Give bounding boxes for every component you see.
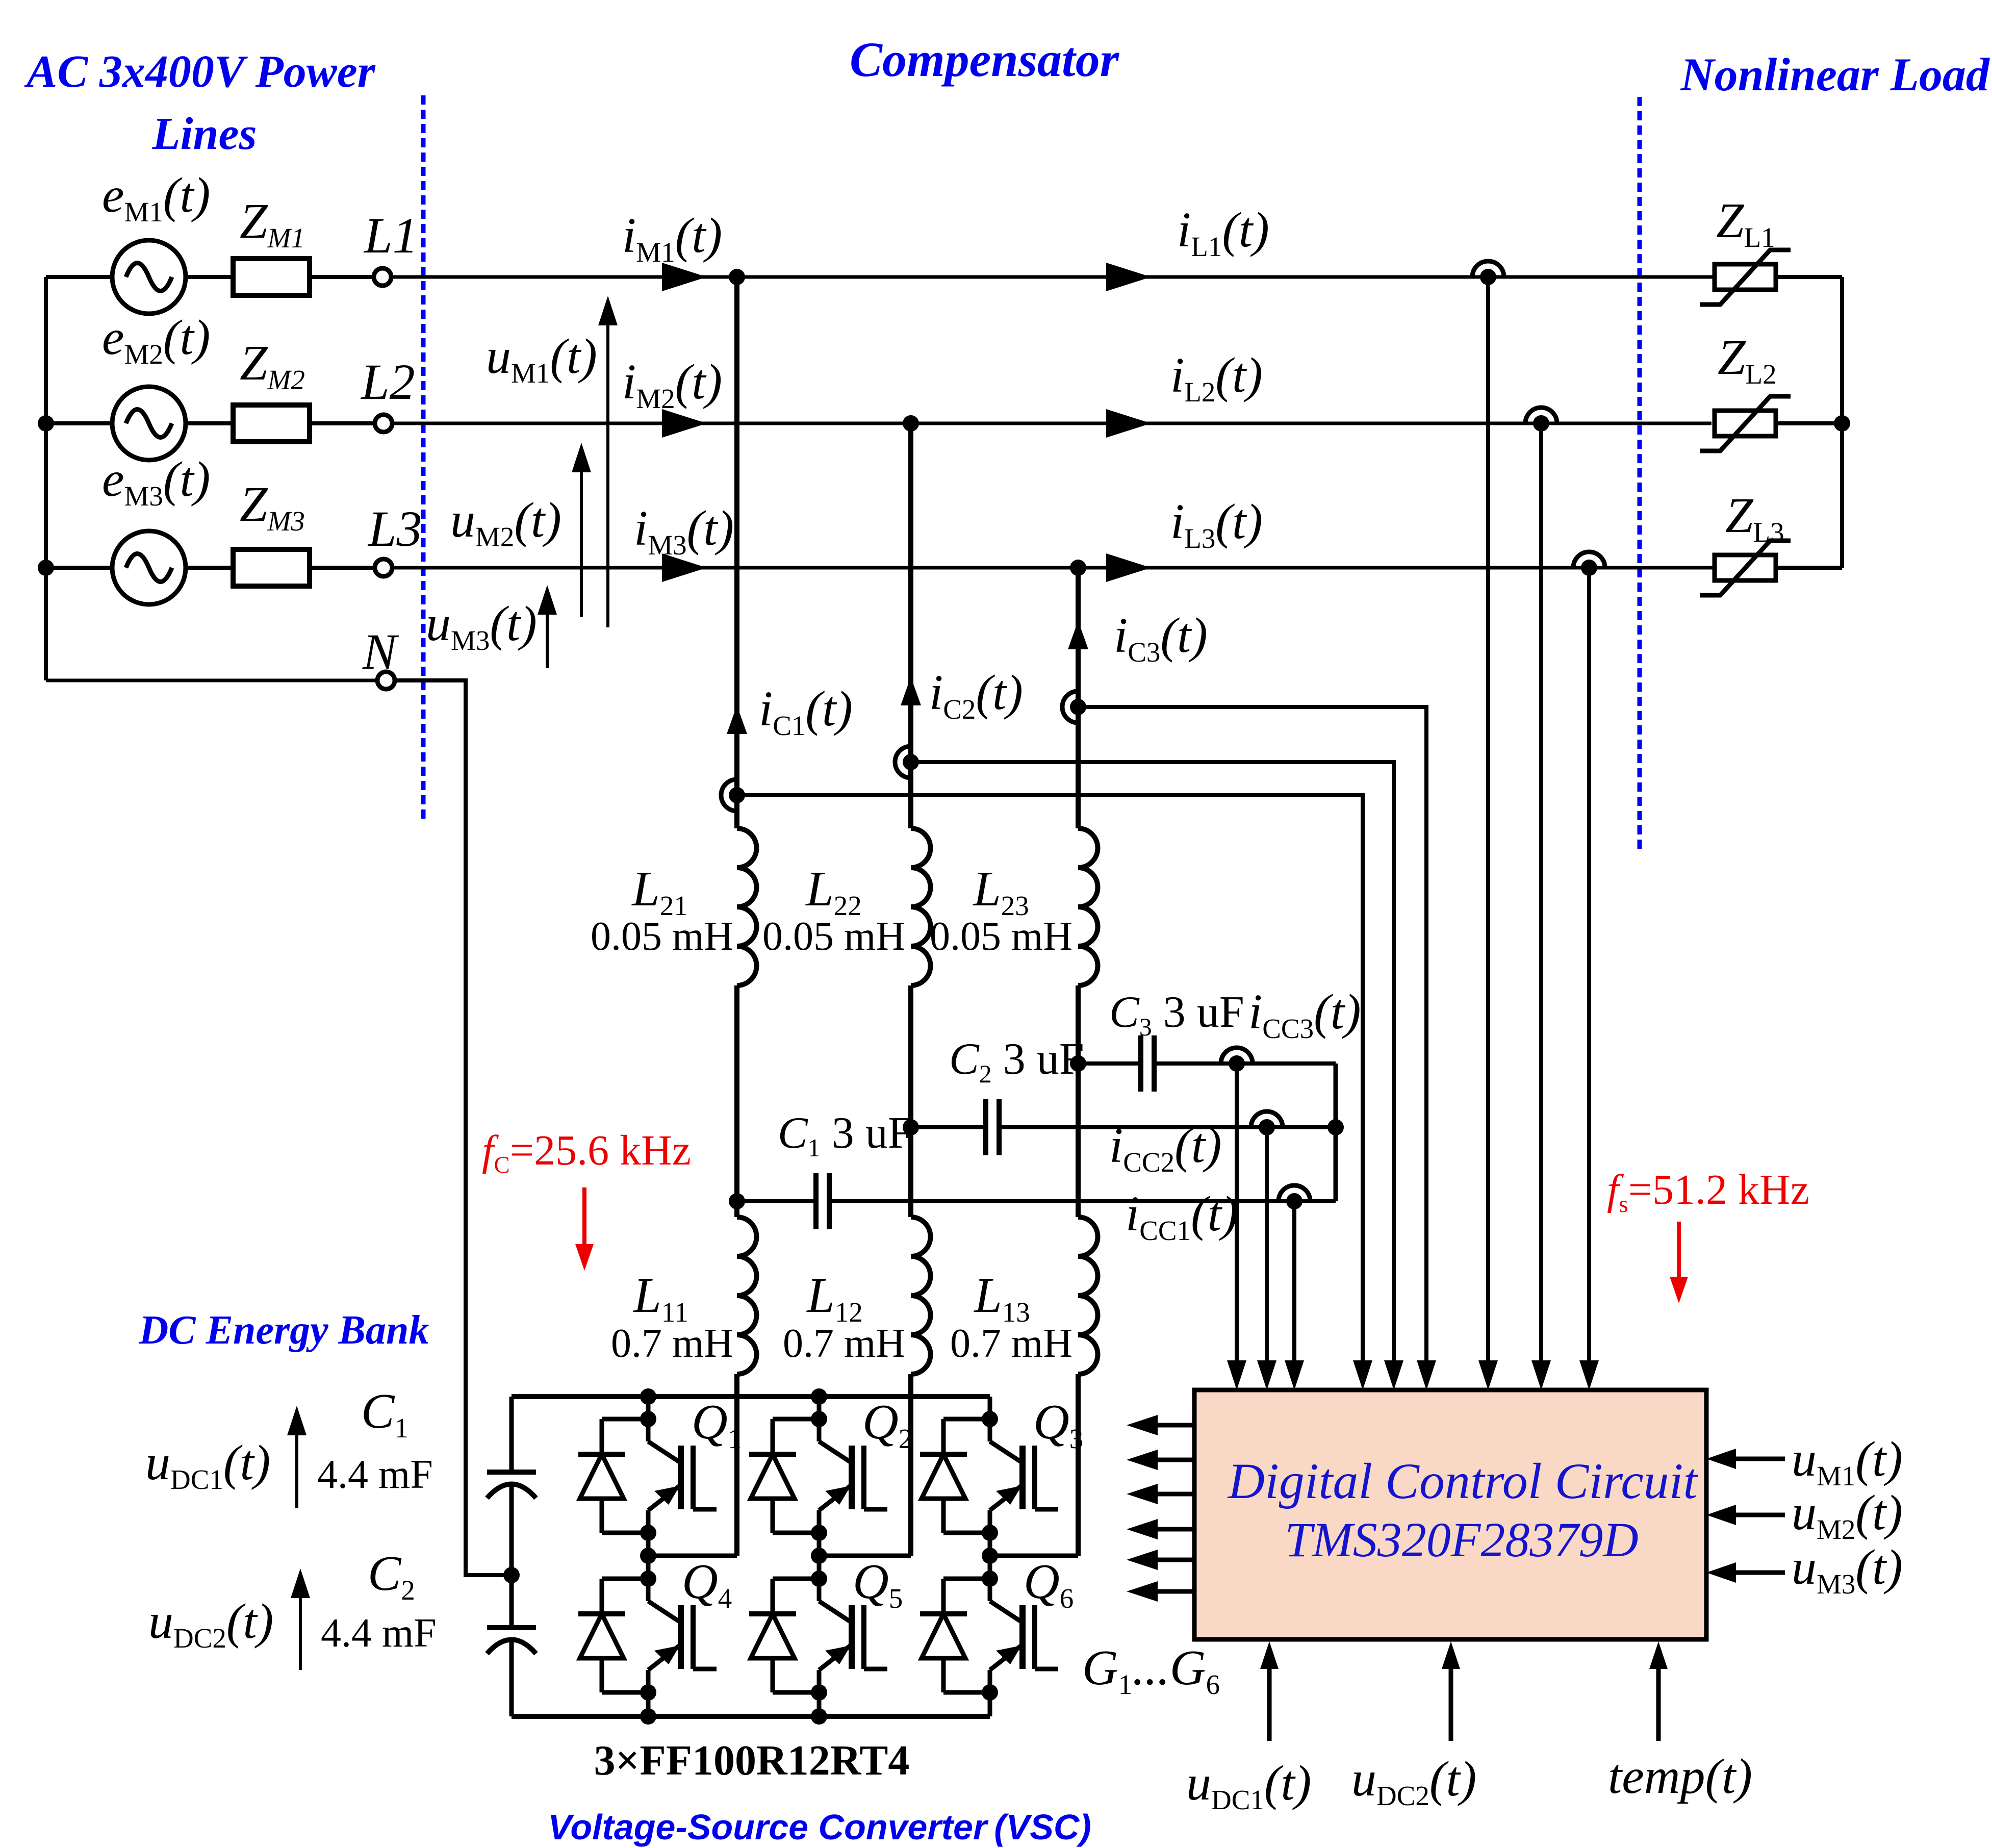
svg-text:C1​ 3 uF: C1​ 3 uF: [778, 1108, 913, 1162]
wire source to Z_M1: [186, 275, 233, 279]
current sensor i_CC2: [1251, 1111, 1283, 1135]
node dot top rail leg 1: [640, 1388, 656, 1405]
node dot star point C2 row: [1327, 1119, 1344, 1135]
digital control circuit box U1: [1194, 1390, 1706, 1639]
arrow u_M1 reference: [598, 296, 618, 627]
wire i_L1 sense line down: [1486, 277, 1490, 1360]
arrow i_M1: [662, 263, 707, 291]
node dot leg 1 lower top: [640, 1571, 656, 1587]
svg-text:Digital Control Circuit: Digital Control Circuit: [1227, 1453, 1699, 1509]
arrow i_CC1 into control box: [1285, 1360, 1304, 1390]
label Z_M3: [240, 477, 305, 537]
label i_C3(t): [1114, 608, 1208, 668]
label N: [362, 623, 399, 680]
label u_M1(t): [486, 329, 597, 389]
label i_CC3(t): [1248, 984, 1361, 1044]
AC source e_M3: [112, 531, 186, 604]
node dot line3 branch3 tap: [1070, 560, 1086, 576]
wire i_C3 sense line: [1078, 707, 1426, 1360]
wire leg 2 vertical segments: [817, 1397, 822, 1716]
label i_CC1(t): [1126, 1186, 1238, 1246]
section title: Compensator: [850, 32, 1120, 87]
arrow gate output y2862: [1127, 1450, 1194, 1470]
wire source to Z_M2: [186, 421, 233, 425]
terminal L2: [375, 415, 392, 432]
label DC Energy Bank: [139, 1308, 429, 1353]
label temp(t): [1608, 1749, 1752, 1804]
arrow f_C red: [575, 1187, 594, 1271]
wire DC bank vertical: [509, 1397, 514, 1716]
node dot leg 3 upper emitter: [982, 1525, 998, 1541]
label 4.4 mF (C2): [321, 1611, 437, 1656]
nonlinear impedance Z_L2: [1700, 396, 1791, 451]
wire Z_L2 to right bus: [1776, 421, 1842, 425]
arrow i_L1: [1106, 263, 1151, 291]
arrow u_DC1 reference: [287, 1406, 307, 1508]
label f_s=51.2 kHz: [1607, 1166, 1809, 1218]
svg-text:L2: L2: [360, 353, 415, 410]
current sensor i_L2: [1525, 408, 1557, 432]
diode D6 (antiparallel, leg 3 lower): [920, 1579, 990, 1692]
svg-text:L1: L1: [363, 207, 418, 264]
wire bus to source e_M1: [46, 275, 112, 279]
arrow gate output y2929: [1127, 1484, 1194, 1504]
wire line L3: [392, 566, 1715, 570]
wire neutral to DC bank midpoint: [394, 680, 512, 1575]
label e_M1(t): [102, 168, 210, 227]
label L13: [973, 1268, 1030, 1328]
label G1...G6: [1082, 1640, 1220, 1700]
arrow i_L3 into control box: [1579, 1360, 1599, 1390]
svg-text:iL1​(t): iL1​(t): [1177, 202, 1269, 262]
label L23: [972, 862, 1029, 921]
diode D1 (antiparallel, leg 1 upper): [578, 1419, 648, 1533]
transistor Q5 (IGBT): [819, 1601, 887, 1670]
current sensor i_CC3: [1221, 1048, 1253, 1072]
label L23 value 0.05 mH: [930, 914, 1072, 959]
arrow i_CC2 into control box: [1257, 1360, 1276, 1390]
label Q1: [692, 1395, 742, 1454]
arrow i_C1 into control box: [1353, 1360, 1372, 1390]
wire line L2: [392, 422, 1712, 425]
node dot leg 2 upper emitter: [811, 1525, 827, 1541]
diode D5 (antiparallel, leg 2 lower): [749, 1579, 819, 1692]
wire leg 1 vertical segments: [646, 1397, 651, 1716]
svg-text:0.7 mH: 0.7 mH: [783, 1321, 905, 1366]
label i_L1(t): [1177, 202, 1269, 262]
label u_M3(t): [426, 596, 537, 656]
arrow i_C3 into control box: [1417, 1360, 1436, 1390]
label 4.4 mF (C1): [317, 1452, 433, 1497]
svg-text:DC Energy Bank: DC Energy Bank: [139, 1308, 429, 1353]
arrow i_M2: [662, 409, 707, 438]
svg-text:0.05 mH: 0.05 mH: [930, 914, 1072, 959]
svg-text:Nonlinear Load: Nonlinear Load: [1680, 48, 1990, 100]
terminal L3: [375, 559, 392, 576]
label Q4: [682, 1554, 732, 1614]
arrow u_DC1 input bottom: [1260, 1641, 1279, 1741]
diode D4 (antiparallel, leg 1 lower): [578, 1579, 648, 1692]
node dot leg 2 lower emitter: [811, 1684, 827, 1701]
inductor L21: [737, 828, 757, 985]
label L21 value 0.05 mH: [591, 914, 733, 959]
wire branch 1 vertical (line to VSC): [734, 277, 739, 1556]
svg-text:3×FF100R12RT4: 3×FF100R12RT4: [594, 1737, 910, 1784]
wire i_L3 sense line down: [1587, 568, 1591, 1360]
node dot leg 1 lower emitter: [640, 1684, 656, 1701]
arrow u_DC2 reference: [291, 1568, 310, 1670]
svg-text:C2​ 3 uF: C2​ 3 uF: [949, 1034, 1084, 1088]
arrow gate output y2998: [1127, 1519, 1194, 1539]
svg-text:G1​...G6​: G1​...G6​: [1082, 1640, 1220, 1700]
label L3: [367, 500, 422, 557]
wire i_CC3 sense line down: [1235, 1064, 1239, 1360]
label L1: [363, 207, 418, 264]
arrow u_M1 input: [1706, 1449, 1785, 1469]
section title: AC 3x400V Power Lines: [24, 46, 375, 159]
wire cap row C2 left: [911, 1125, 986, 1129]
wire branch 3 vertical (line to VSC): [1076, 568, 1081, 1556]
wire VSC top rail: [512, 1394, 990, 1399]
wire i_CC1 sense line down: [1292, 1201, 1296, 1360]
label C1 3 uF: [778, 1108, 913, 1162]
section title: Nonlinear Load: [1680, 48, 1990, 100]
node dot leg 1 upper emitter: [640, 1525, 656, 1541]
node dot branch 1 cap row: [729, 1193, 745, 1209]
impedance Z_M1: [233, 259, 310, 295]
label u_DC1(t) bottom: [1186, 1756, 1311, 1815]
capacitor C2 (DC bank 4.4 mF): [487, 1628, 536, 1654]
node dot left bus L2: [38, 415, 54, 432]
wire i_L2 sense line down: [1539, 423, 1543, 1360]
capacitor C2 (3 uF): [986, 1099, 999, 1155]
arrow i_L3: [1106, 553, 1151, 582]
svg-text:Compensator: Compensator: [850, 32, 1120, 87]
svg-text:fC​=25.6 kHz: fC​=25.6 kHz: [482, 1127, 691, 1178]
current sensor i_C1: [721, 779, 745, 811]
wire cap row C1 right: [829, 1199, 1336, 1203]
wire bus to source e_M2: [46, 421, 112, 425]
label Z_M2: [240, 336, 305, 395]
arrow i_C2: [901, 677, 921, 705]
node dot leg 2 upper top: [811, 1411, 827, 1427]
label L12: [806, 1268, 863, 1328]
impedance Z_M3: [233, 549, 310, 586]
arrow u_M3 reference: [538, 585, 557, 668]
wire i_C1 sense line: [737, 795, 1363, 1360]
wire leg 1 phase connection: [648, 1554, 737, 1558]
label u_DC1(t): [145, 1435, 270, 1495]
node dot right bus L2: [1834, 415, 1850, 432]
svg-text:0.7 mH: 0.7 mH: [611, 1321, 733, 1366]
label C2 (DC): [368, 1546, 415, 1606]
label 3xFF100R12RT4: [594, 1737, 910, 1784]
wire Z_M1 to terminal L1: [310, 275, 374, 279]
arrow i_C3: [1068, 621, 1088, 649]
svg-text:0.7 mH: 0.7 mH: [950, 1321, 1072, 1366]
label Voltage-Source Converter (VSC): [548, 1807, 1091, 1847]
terminal N: [377, 672, 395, 689]
label i_C1(t): [759, 681, 853, 741]
label i_M3(t): [634, 501, 734, 561]
arrow u_M2 reference: [572, 443, 591, 617]
capacitor C1 (DC bank 4.4 mF): [487, 1472, 536, 1498]
label L12 value 0.7 mH: [783, 1321, 905, 1366]
inductor L13: [1078, 1217, 1098, 1374]
svg-text:L3: L3: [367, 500, 422, 557]
inductor L12: [911, 1217, 931, 1374]
current sensor i_L3: [1573, 552, 1605, 576]
svg-text:4.4 mF: 4.4 mF: [317, 1452, 433, 1497]
arrow i_CC3 into control box: [1227, 1360, 1246, 1390]
wire capacitor star point vertical: [1334, 1064, 1338, 1201]
label Q5: [853, 1554, 903, 1614]
transistor Q3 (IGBT): [990, 1441, 1058, 1510]
node dot leg 3 upper top: [982, 1411, 998, 1427]
wire source to Z_M3: [186, 566, 233, 570]
transistor Q4 (IGBT): [648, 1601, 717, 1670]
wire neutral N horizontal: [46, 679, 378, 682]
wire Z_L3 to right bus: [1776, 566, 1842, 570]
arrow gate output y3058: [1127, 1550, 1194, 1570]
label i_L3(t): [1170, 494, 1263, 554]
node dot leg 2 phase: [811, 1548, 827, 1564]
wire bus to source e_M3: [46, 566, 112, 570]
separator dashed line right (compensator | nonlinear load): [1638, 97, 1642, 853]
wire Z_M2 to terminal L2: [310, 421, 375, 425]
node dot leg 3 lower top: [982, 1571, 998, 1587]
arrow temp input bottom: [1649, 1641, 1668, 1741]
svg-text:C3​ 3 uF: C3​ 3 uF: [1109, 988, 1244, 1041]
wire right bus (load star): [1840, 277, 1844, 568]
node dot bottom rail leg 2: [811, 1708, 827, 1725]
label Z_L1: [1716, 193, 1775, 253]
svg-text:4.4 mF: 4.4 mF: [321, 1611, 437, 1656]
label L11 value 0.7 mH: [611, 1321, 733, 1366]
svg-text:fs​=51.2 kHz: fs​=51.2 kHz: [1607, 1166, 1809, 1218]
label f_C=25.6 kHz: [482, 1127, 691, 1178]
wire i_CC2 sense line down: [1265, 1127, 1269, 1360]
inductor L23: [1078, 828, 1098, 985]
node dot leg 1 phase: [640, 1548, 656, 1564]
terminal L1: [374, 268, 391, 286]
label L22: [805, 862, 862, 921]
wire cap row C1 left: [737, 1199, 816, 1203]
node dot line2 branch2 tap: [903, 415, 919, 432]
wire leg 3 vertical segments: [988, 1397, 992, 1716]
svg-text:Voltage-Source Converter (VSC): Voltage-Source Converter (VSC): [548, 1807, 1091, 1847]
node dot leg 1 upper top: [640, 1411, 656, 1427]
node dot top rail leg 2: [811, 1388, 827, 1405]
svg-text:0.05 mH: 0.05 mH: [591, 914, 733, 959]
arrow i_C1: [727, 705, 747, 734]
capacitor C3 (3 uF): [1141, 1035, 1154, 1092]
label i_M1(t): [622, 208, 722, 268]
node dot bottom rail leg 1: [640, 1708, 656, 1725]
label u_M3(t) right: [1792, 1540, 1903, 1600]
transistor Q1 (IGBT): [648, 1441, 717, 1510]
label Z_L2: [1718, 330, 1777, 390]
current sensor i_C3: [1062, 691, 1086, 723]
arrow gate output y2794: [1127, 1415, 1194, 1435]
svg-text:iL3​(t): iL3​(t): [1170, 494, 1263, 554]
current sensor i_L1: [1472, 261, 1504, 285]
node dot branch 3 cap row: [1070, 1055, 1086, 1072]
svg-text:iL2​(t): iL2​(t): [1170, 348, 1263, 408]
transistor Q6 (IGBT): [990, 1601, 1058, 1670]
label i_M2(t): [622, 355, 722, 414]
label Q3: [1033, 1395, 1083, 1454]
node dot leg 3 phase: [982, 1548, 998, 1564]
label u_DC2(t): [148, 1594, 273, 1654]
diode D2 (antiparallel, leg 2 upper): [749, 1419, 819, 1533]
wire Z_L1 to right bus: [1776, 275, 1842, 279]
nonlinear impedance Z_L1: [1700, 250, 1791, 305]
current sensor i_CC1: [1279, 1185, 1310, 1209]
wire cap row C3 left: [1078, 1061, 1141, 1066]
arrow i_C2 into control box: [1384, 1360, 1403, 1390]
label Q6: [1024, 1554, 1074, 1614]
svg-text:TMS320F28379D: TMS320F28379D: [1285, 1512, 1638, 1567]
label C1 (DC): [361, 1384, 408, 1444]
arrow u_M3 input: [1706, 1562, 1785, 1583]
arrow i_M3: [662, 553, 707, 582]
arrow u_DC2 input bottom: [1442, 1641, 1460, 1741]
arrow i_L1 into control box: [1478, 1360, 1498, 1390]
svg-text:AC 3x400V Power: AC 3x400V Power: [24, 46, 375, 97]
label L21: [631, 862, 688, 921]
label TMS320F28379D: [1285, 1512, 1638, 1567]
node dot leg 2 lower top: [811, 1571, 827, 1587]
wire line L1: [391, 275, 1715, 279]
diode D3 (antiparallel, leg 3 upper): [920, 1419, 990, 1533]
label u_M1(t) right: [1792, 1432, 1903, 1491]
inductor L11: [737, 1217, 757, 1374]
wire branch 2 vertical (line to VSC): [908, 423, 913, 1556]
impedance Z_M2: [233, 405, 310, 442]
svg-text:Lines: Lines: [151, 109, 257, 159]
wire cap row C3 right: [1154, 1061, 1336, 1066]
AC source e_M2: [112, 387, 186, 460]
node dot branch 2 cap row: [903, 1119, 919, 1135]
inductor L22: [911, 828, 931, 985]
wire VSC bottom rail: [512, 1714, 990, 1719]
arrow gate output y3120: [1127, 1581, 1194, 1602]
label L13 value 0.7 mH: [950, 1321, 1072, 1366]
label Digital Control Circuit: [1227, 1453, 1699, 1509]
arrow i_L2 into control box: [1531, 1360, 1551, 1390]
wire i_C2 sense line: [911, 762, 1394, 1360]
label u_M2(t) right: [1792, 1485, 1903, 1545]
label Z_M1: [240, 194, 305, 254]
wire left bus: [44, 277, 48, 680]
label i_CC2(t): [1109, 1118, 1222, 1178]
node dot line1 branch1 tap: [729, 269, 745, 285]
node dot DC midpoint: [503, 1567, 520, 1583]
label C3 3 uF: [1109, 988, 1244, 1041]
label Q2: [862, 1395, 912, 1454]
label u_DC2(t) bottom: [1351, 1752, 1476, 1811]
label L22 value 0.05 mH: [762, 914, 905, 959]
nonlinear impedance Z_L3: [1700, 541, 1791, 595]
arrow i_L2: [1106, 409, 1151, 438]
label e_M3(t): [102, 452, 210, 512]
label L2: [360, 353, 415, 410]
wire leg 2 phase connection: [819, 1554, 911, 1558]
wire leg 3 phase connection: [990, 1554, 1078, 1558]
label Z_L3: [1725, 488, 1784, 548]
label C2 3 uF: [949, 1034, 1084, 1088]
svg-text:N: N: [362, 623, 399, 680]
svg-text:0.05 mH: 0.05 mH: [762, 914, 905, 959]
label i_C2(t): [929, 665, 1023, 725]
arrow f_s red: [1670, 1222, 1688, 1303]
node dot left bus L3: [38, 560, 54, 576]
separator dashed line left (power lines | compensator): [421, 95, 426, 821]
label i_L2(t): [1170, 348, 1263, 408]
current sensor i_C2: [895, 746, 919, 778]
capacitor C1 (3 uF): [816, 1173, 829, 1229]
label e_M2(t): [102, 310, 210, 370]
label u_M2(t): [450, 493, 561, 552]
node dot leg 3 lower emitter: [982, 1684, 998, 1701]
wire Z_M3 to terminal L3: [310, 566, 375, 570]
AC source e_M1: [112, 240, 186, 314]
svg-text:temp(t): temp(t): [1608, 1749, 1752, 1804]
arrow u_M2 input: [1706, 1505, 1785, 1525]
transistor Q2 (IGBT): [819, 1441, 887, 1510]
wire cap row C2 right: [999, 1125, 1336, 1129]
label L11: [632, 1268, 688, 1328]
